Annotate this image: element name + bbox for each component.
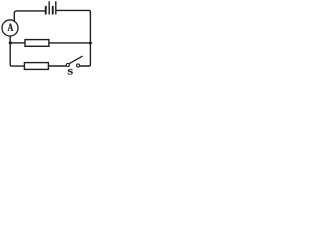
- resistor R2 (bottom box): [24, 63, 48, 70]
- battery plate short 3: [52, 6, 54, 15]
- switch S lever: [69, 56, 83, 64]
- wire top-left (ammeter top to battery): [14, 11, 45, 21]
- wire left vertical (ammeter bottom to lower branch corner): [10, 36, 24, 66]
- ammeter U1 circle: [2, 20, 18, 36]
- switch S left contact: [66, 63, 69, 66]
- resistor R1 (top box): [25, 40, 49, 47]
- node junction dot right: [89, 42, 92, 45]
- battery plate long 2: [49, 1, 50, 14]
- battery plate short 1: [45, 6, 47, 15]
- battery plate long 4: [55, 1, 56, 14]
- ammeter label A: [8, 24, 14, 31]
- switch label S: [68, 69, 73, 75]
- node junction dot left: [9, 41, 12, 44]
- wire resistor R2 to switch: [48, 65, 66, 67]
- switch S right contact: [77, 64, 80, 67]
- background: [0, 0, 96, 78]
- wire top-right (battery to right corner, down right side): [56, 10, 90, 66]
- wire resistor R1 to right side: [49, 42, 90, 44]
- wire to resistor R1: [10, 42, 24, 44]
